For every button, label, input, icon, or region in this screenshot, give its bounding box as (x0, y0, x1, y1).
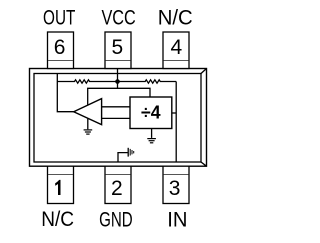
svg-text:3: 3 (169, 177, 181, 200)
svg-text:5: 5 (112, 36, 124, 59)
svg-text:N/C: N/C (158, 7, 193, 30)
svg-text:÷4: ÷4 (141, 102, 161, 123)
svg-text:N/C: N/C (41, 208, 74, 231)
svg-text:OUT: OUT (43, 7, 75, 30)
svg-text:4: 4 (171, 36, 183, 59)
svg-text:GND: GND (99, 208, 133, 231)
svg-text:6: 6 (54, 36, 66, 59)
svg-text:VCC: VCC (101, 7, 135, 30)
svg-text:2: 2 (111, 177, 123, 200)
svg-text:IN: IN (167, 208, 187, 231)
